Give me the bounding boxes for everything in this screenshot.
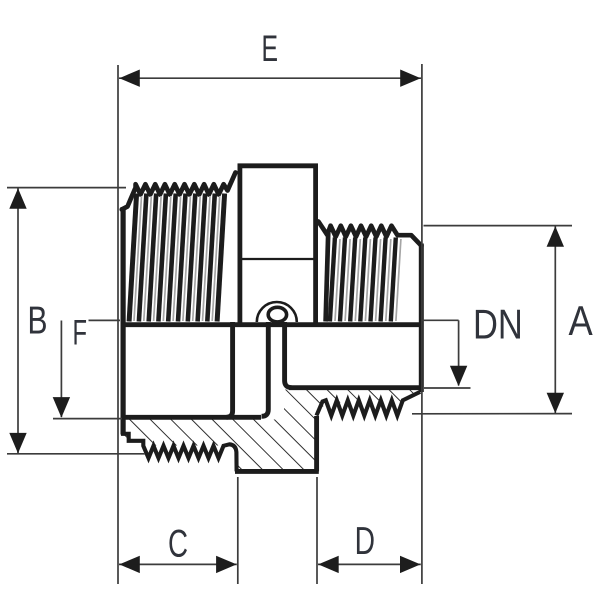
dimension line D xyxy=(318,563,421,565)
svg-text:F: F xyxy=(73,313,88,353)
arrow B bottom xyxy=(9,433,26,454)
reduction bore arc on hex face xyxy=(257,302,297,322)
arrow D left xyxy=(318,556,339,573)
arrow A bottom xyxy=(547,393,564,414)
arrow B top xyxy=(9,188,26,209)
center tab right edge xyxy=(314,416,319,471)
C extension line right xyxy=(237,477,239,584)
bore step wall C xyxy=(285,322,292,388)
dimension line B xyxy=(17,189,19,454)
hex body left edge xyxy=(237,164,242,328)
arrow E right xyxy=(400,70,421,87)
centerline section boundary xyxy=(121,322,422,327)
hatched cut material xyxy=(100,380,440,490)
right end face edge xyxy=(419,244,424,393)
left male thread crest outline xyxy=(122,173,236,210)
dimension line A xyxy=(554,226,556,413)
large bore bottom wall xyxy=(122,415,262,420)
arrow F xyxy=(53,397,70,418)
left thread section teeth profile xyxy=(123,430,237,471)
arrow C left xyxy=(119,556,140,573)
F extension line bottom xyxy=(53,418,122,420)
DN extension line bottom xyxy=(424,387,471,389)
right thread section teeth profile xyxy=(317,392,421,416)
left body end face edge xyxy=(120,207,125,435)
arrow D right xyxy=(400,556,421,573)
DN leader line xyxy=(422,319,459,321)
arrow E left xyxy=(119,70,140,87)
F dimension line xyxy=(60,321,62,418)
small bore bottom wall xyxy=(289,385,419,390)
center tab bottom edge xyxy=(235,469,319,474)
svg-text:E: E xyxy=(262,27,279,69)
hex body top edge xyxy=(238,163,318,168)
D extension line left xyxy=(316,477,318,584)
arrow DN xyxy=(450,366,467,387)
svg-text:D: D xyxy=(355,520,375,563)
svg-text:C: C xyxy=(168,522,188,565)
A extension line bottom xyxy=(412,413,572,415)
right thread flank lines (gray) xyxy=(335,239,401,321)
bore step wall A xyxy=(227,322,233,417)
right thread flank lines (black) xyxy=(330,238,396,322)
DN dimension line xyxy=(458,320,460,385)
svg-text:B: B xyxy=(28,300,48,343)
dimension line C xyxy=(119,563,237,565)
arrow C right xyxy=(216,556,237,573)
svg-text:DN: DN xyxy=(473,301,523,347)
A extension line top xyxy=(424,225,573,227)
B extension line bottom xyxy=(7,453,145,455)
right thread root edge at hex xyxy=(326,230,329,322)
F leader line xyxy=(89,319,121,321)
E extension line right xyxy=(421,64,423,584)
arrow A top xyxy=(547,226,564,247)
reduction bore inner ring xyxy=(268,307,286,322)
left thread flank lines (black) xyxy=(129,194,225,322)
bore step wall B xyxy=(262,322,269,416)
svg-text:A: A xyxy=(569,298,594,344)
B extension line top xyxy=(7,187,126,189)
left thread flank lines (gray back edges) xyxy=(134,196,220,321)
dimension line E xyxy=(119,77,421,79)
right male thread crest outline xyxy=(318,222,421,246)
E extension line left xyxy=(117,65,119,584)
hex body right edge xyxy=(313,164,318,328)
hex facet line xyxy=(242,258,314,260)
